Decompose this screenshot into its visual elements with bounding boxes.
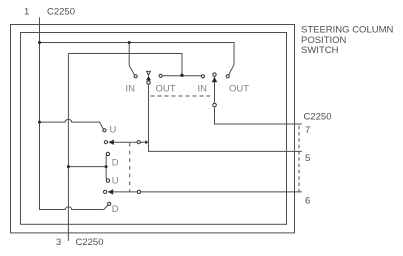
wire: row1 from bus1 with hop over bus2, blade to U contact bbox=[40, 119, 104, 129]
wire: contact row S1-OUT to S2-IN bbox=[162, 75, 201, 77]
junction dot bus1/top branch bbox=[38, 41, 41, 44]
pole P2 arrow up bbox=[212, 77, 218, 82]
wire: bus1 from pin 1 down left side, bottom run with hop over bus2 bbox=[40, 17, 104, 209]
row4 arrow bar bbox=[112, 189, 113, 194]
wire: top branch from bus1 to OUT blade of S2 bbox=[40, 43, 235, 65]
pole P1 stem down to pin 5 wire bbox=[149, 84, 302, 151]
pole P1 circle bbox=[147, 81, 150, 84]
contact circle bracket U bbox=[106, 179, 109, 182]
junction dot IN blade top bbox=[128, 41, 131, 44]
junction dot bus1/row1 bbox=[38, 121, 41, 124]
row2 arrow bar bbox=[113, 140, 114, 145]
svg-text:OUT: OUT bbox=[156, 84, 176, 95]
svg-text:6: 6 bbox=[305, 196, 310, 207]
contact circle bracket D bbox=[106, 152, 109, 155]
svg-text:U: U bbox=[112, 175, 119, 186]
svg-text:OUT: OUT bbox=[229, 84, 249, 95]
pole P2 top circle bbox=[213, 73, 216, 76]
wire: row4 arm to pin 6 bbox=[113, 191, 302, 193]
switch blade IN S1 bbox=[129, 43, 134, 75]
row2 arrow right at pole bbox=[145, 140, 148, 144]
pole P1 top fork bbox=[147, 71, 151, 75]
pole P1 arrow up bbox=[146, 76, 151, 81]
contact circle S1 OUT bbox=[159, 74, 162, 77]
junction dot S1 OUT row bbox=[180, 74, 183, 77]
wire: junction up to bus2 top run bbox=[68, 54, 182, 76]
wire: bracket D-U vertical bbox=[105, 155, 108, 179]
svg-text:D: D bbox=[112, 157, 119, 168]
contact circle S1 IN bbox=[134, 75, 137, 78]
svg-text:D: D bbox=[112, 204, 119, 215]
contact circle row4 mid bbox=[137, 190, 140, 193]
outer box bbox=[11, 25, 295, 233]
junction dot bus2/mid feed bbox=[67, 165, 70, 168]
svg-text:IN: IN bbox=[126, 84, 136, 95]
wire: row2 arm to pole P1 bbox=[113, 141, 146, 143]
dashed mechanical link row2-row4 bbox=[129, 143, 131, 192]
pole P2 stem down to pin 7 wire bbox=[215, 76, 302, 124]
svg-text:5: 5 bbox=[305, 153, 310, 164]
svg-text:U: U bbox=[110, 125, 117, 136]
dashed mechanical link S1-S2 bbox=[151, 95, 211, 97]
contact circle row2 mid bbox=[137, 141, 140, 144]
svg-text:IN: IN bbox=[198, 84, 208, 95]
row4 arrow left bbox=[108, 190, 113, 195]
contact circle row4 left bbox=[104, 190, 107, 193]
switch blade D bottom bbox=[104, 205, 108, 210]
svg-text:SWITCH: SWITCH bbox=[301, 45, 339, 56]
inner box bbox=[21, 33, 287, 225]
contact circle row2 left bbox=[104, 141, 107, 144]
contact circle D bottom bbox=[108, 202, 111, 205]
svg-text:7: 7 bbox=[305, 125, 310, 136]
svg-text:C2250: C2250 bbox=[304, 112, 332, 123]
junction dot mid feed/bracket bbox=[105, 165, 108, 168]
wire: bus2 down to pin 3 bbox=[67, 54, 69, 241]
contact circle S2 IN bbox=[201, 75, 204, 78]
svg-text:C2250: C2250 bbox=[47, 7, 75, 18]
svg-text:1: 1 bbox=[24, 7, 29, 18]
row2 arrow left bbox=[108, 140, 113, 145]
svg-text:3: 3 bbox=[56, 237, 61, 248]
contact circle S2 OUT bbox=[226, 75, 229, 78]
dashed connector line C2250 right bbox=[298, 126, 300, 192]
svg-text:C2250: C2250 bbox=[76, 237, 104, 248]
contact circle U row1 bbox=[103, 129, 106, 132]
switch blade OUT S2 bbox=[229, 65, 235, 75]
wire: mid feed from bus2 to bracket bbox=[68, 166, 106, 168]
pole P2 ring on stem bbox=[213, 103, 217, 107]
